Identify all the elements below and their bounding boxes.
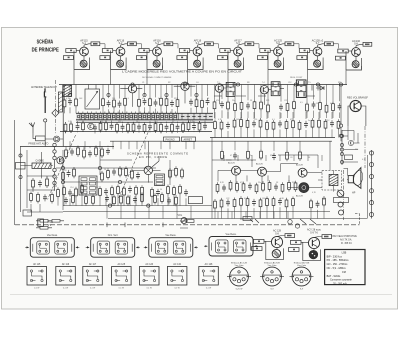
- svg-text:C8: C8: [195, 98, 197, 100]
- svg-text:47: 47: [142, 98, 144, 100]
- resistor R91: [77, 146, 80, 157]
- resistor R20: [132, 122, 135, 133]
- resistor R65: [181, 168, 184, 179]
- socket box AC 125: [112, 267, 132, 286]
- resistor R109: [246, 197, 249, 208]
- resistor R25: [182, 122, 185, 133]
- svg-text:A/U.TK GA.: A/U.TK GA.: [340, 239, 352, 242]
- dashdot speaker line: [343, 170, 345, 220]
- resistor R11: [195, 98, 198, 109]
- socket box AF 115: [27, 267, 47, 286]
- wire stage link: [136, 44, 141, 49]
- svg-text:L'CADRE MODERELE REG VOLTMETRE: L'CADRE MODERELE REG VOLTMETRE A COUPE E…: [122, 71, 243, 74]
- resistor R27: [198, 121, 201, 132]
- resistor R52: [311, 118, 314, 129]
- svg-text:Vue Cote: Vue Cote: [234, 264, 244, 267]
- resistor R74: [135, 185, 138, 196]
- svg-text:CADRE: CADRE: [36, 159, 45, 162]
- svg-text:AC 125: AC 125: [117, 263, 125, 266]
- wire T5: [348, 106, 366, 126]
- svg-text:Occ. Vert: Occ. Vert: [108, 234, 118, 237]
- resistor R6: [138, 97, 141, 108]
- right cluster wires: [342, 126, 360, 162]
- svg-text:AC125: AC125: [228, 162, 235, 165]
- left column parts: [19, 154, 22, 157]
- IF transformer M2: [271, 82, 280, 96]
- resistor R99: [255, 183, 258, 194]
- svg-text:VOL: VOL: [178, 215, 183, 217]
- wire cadre: [21, 152, 53, 178]
- right bus nodes: [369, 150, 373, 219]
- capacitor C14: [148, 123, 152, 130]
- wire stage link: [254, 44, 259, 49]
- wire stage drop: [147, 66, 163, 85]
- svg-text:220: 220: [254, 119, 257, 121]
- battery: [38, 219, 44, 226]
- dashed diagonal 1: [48, 135, 76, 199]
- resistor R88: [161, 192, 164, 203]
- svg-text:5n: 5n: [158, 98, 160, 100]
- transistor stage S-4: [177, 42, 213, 70]
- resistor R22: [154, 122, 157, 133]
- resistor R103: [288, 180, 291, 191]
- resistor R39: [325, 103, 328, 114]
- resistor R32: [253, 100, 256, 111]
- svg-text:AC 132: AC 132: [173, 263, 181, 266]
- capacitor C33: [104, 188, 108, 195]
- resistor R122: [32, 178, 35, 189]
- driver transformer TR2: [329, 174, 338, 185]
- resistor R49: [285, 119, 288, 130]
- resistor R5: [124, 96, 127, 107]
- resistor R92: [83, 148, 86, 159]
- capacitor C7: [189, 99, 193, 106]
- node N8: [236, 83, 239, 86]
- resistor R76: [151, 187, 154, 198]
- resistor R12: [201, 98, 204, 109]
- dashed corner: [355, 214, 360, 225]
- dashed diagonal 2: [118, 128, 150, 199]
- rails: [60, 131, 212, 133]
- driver transistor T5: [350, 100, 361, 111]
- capacitor C9: [76, 123, 80, 130]
- capacitor C46: [274, 184, 278, 191]
- resistor R34: [267, 103, 270, 114]
- resistor R23: [160, 122, 163, 133]
- capacitor C6: [170, 100, 174, 107]
- svg-text:AC128: AC128: [296, 195, 303, 198]
- wire stage drop: [268, 66, 284, 85]
- resistor R93: [95, 146, 98, 157]
- capacitor C45: [248, 183, 252, 190]
- capacitor C49: [278, 198, 282, 205]
- arret box: [182, 137, 196, 142]
- wire risers mid: [70, 141, 194, 218]
- svg-text:0,1: 0,1: [126, 98, 129, 100]
- resistor R89: [175, 195, 178, 206]
- resistor R121: [299, 150, 302, 161]
- node N13: [98, 166, 101, 169]
- svg-text:50: 50: [136, 121, 138, 123]
- resistor R112: [272, 197, 275, 208]
- svg-text:0,5: 0,5: [244, 198, 247, 200]
- resistor R54: [324, 119, 327, 130]
- resistor R10: [176, 98, 179, 109]
- wire rf links: [120, 86, 264, 107]
- resistor R117: [221, 149, 224, 160]
- spec box: [325, 250, 365, 285]
- node N4: [165, 93, 168, 96]
- resistor R60: [119, 166, 122, 177]
- power rail solid: [108, 218, 367, 220]
- resistor R110: [259, 198, 262, 209]
- dash-dot separator: [55, 80, 57, 135]
- capacitor C48: [252, 199, 256, 206]
- transistor stage S-8: [335, 42, 371, 70]
- socket box AC 128: [199, 267, 219, 286]
- resistor R13: [64, 122, 67, 133]
- capacitor C30: [112, 168, 116, 175]
- resistor R33: [260, 100, 263, 111]
- resistor R78: [173, 185, 176, 196]
- whip antenna: [29, 122, 35, 133]
- resistor R37: [306, 102, 309, 113]
- svg-text:R21: R21: [266, 100, 269, 102]
- svg-text:HP: HP: [352, 192, 356, 195]
- resistor R79: [179, 184, 182, 195]
- resistor R21: [143, 122, 146, 133]
- resistor R15: [82, 121, 85, 132]
- pinout box Vue Dess.: [144, 238, 198, 258]
- svg-text:BAT - 9Volts: BAT - 9Volts: [327, 275, 341, 278]
- wire stage drop: [308, 66, 324, 85]
- resistor R41: [214, 120, 217, 131]
- svg-text:R12: R12: [270, 155, 273, 157]
- svg-text:PRISE ANT. AUTO: PRISE ANT. AUTO: [28, 143, 48, 146]
- resistor R2: [75, 97, 78, 108]
- capacitor C22: [312, 101, 316, 108]
- svg-text:C14: C14: [154, 121, 157, 123]
- resistor R64: [175, 166, 178, 177]
- capacitor C52: [272, 153, 276, 160]
- capacitor C2: [107, 100, 111, 107]
- resistor R116: [323, 196, 326, 207]
- IF mid wires: [215, 112, 332, 119]
- resistor R62: [131, 169, 134, 180]
- wire left links: [27, 176, 63, 212]
- IF transformer M1: [226, 82, 235, 96]
- svg-text:Consomm courante: Consomm courante: [330, 279, 352, 282]
- svg-text:PO - 185 - 565oKcs: PO - 185 - 565oKcs: [327, 259, 350, 262]
- oscillator circle X: [144, 166, 152, 174]
- wire stage drop: [111, 66, 127, 85]
- wire jumpers: [214, 85, 341, 97]
- capacitor C43: [106, 148, 110, 155]
- svg-text:LSB: LSB: [342, 251, 347, 254]
- audio wires: [212, 138, 348, 219]
- resistor R106: [220, 198, 223, 209]
- resistor R108: [240, 196, 243, 207]
- node N5: [195, 93, 198, 96]
- node N12: [61, 166, 64, 169]
- resistor R42: [220, 120, 223, 131]
- node N15: [147, 204, 150, 207]
- socket box AF 116: [56, 267, 76, 286]
- svg-text:AF 117: AF 117: [89, 263, 97, 266]
- svg-text:FM: FM: [342, 271, 346, 274]
- svg-text:S-1: S-1: [82, 42, 86, 45]
- resistor R36: [293, 100, 296, 111]
- node N16: [108, 204, 111, 207]
- capacitor C36: [184, 189, 188, 196]
- resistor R120: [286, 150, 289, 161]
- phono box: [164, 137, 180, 142]
- svg-text:ANTENNE TELESCOP: ANTENNE TELESCOP: [31, 86, 57, 89]
- capacitor C50: [316, 201, 320, 208]
- svg-text:R7: R7: [172, 121, 174, 123]
- resistor R26: [187, 121, 190, 132]
- wire stage link: [333, 44, 338, 49]
- capacitor C37: [64, 197, 68, 204]
- capacitor C53: [38, 180, 42, 187]
- svg-text:S-7: S-7: [316, 42, 320, 45]
- resistor R66: [57, 187, 60, 198]
- resistor R53: [318, 118, 321, 129]
- capacitor C18: [203, 123, 207, 130]
- resistor R58: [101, 171, 104, 182]
- node: [339, 134, 342, 137]
- svg-text:DE PRINCIPE: DE PRINCIPE: [32, 47, 60, 53]
- svg-text:S-9 T-6: S-9 T-6: [310, 231, 318, 234]
- resistor R51: [298, 120, 301, 131]
- node: [44, 119, 47, 122]
- resistor R-left: [16, 163, 26, 170]
- resistor R1: [63, 98, 66, 109]
- resistor R45: [246, 118, 249, 129]
- power rail dashed: [15, 224, 360, 226]
- svg-text:0,25 W: 0,25 W: [236, 289, 243, 291]
- svg-text:0,1 W: 0,1 W: [63, 288, 68, 290]
- resistor R46: [259, 118, 262, 129]
- resistor R114: [292, 197, 295, 208]
- svg-text:0,5: 0,5: [300, 102, 303, 104]
- resistor R107: [233, 198, 236, 209]
- svg-text:Vue Dess.: Vue Dess.: [47, 234, 58, 237]
- svg-text:0,1 W: 0,1 W: [119, 288, 124, 290]
- wire antenna feeds: [33, 109, 63, 147]
- capacitor C42: [88, 150, 92, 157]
- wire osc: [132, 141, 160, 182]
- svg-text:Embase AC 128: Embase AC 128: [231, 262, 248, 265]
- pinout box Vue Dess.: [204, 237, 258, 257]
- svg-text:Vue Dess.: Vue Dess.: [165, 234, 176, 237]
- resistor R61: [125, 166, 128, 177]
- resistor R83: [113, 195, 116, 206]
- wire stage drop: [346, 66, 362, 85]
- resistor R16: [99, 121, 102, 132]
- resistor R101: [268, 180, 271, 191]
- svg-text:OC - 5,9 - 18Mcs: OC - 5,9 - 18Mcs: [327, 267, 347, 270]
- band switch strip: [76, 112, 213, 123]
- capacitor C4: [143, 98, 147, 105]
- resistor R100: [262, 181, 265, 192]
- resistor R71: [111, 186, 114, 197]
- svg-text:T.5: T.5: [308, 82, 311, 84]
- resistor R29: [227, 100, 230, 111]
- svg-text:C8: C8: [64, 170, 66, 172]
- resistor R87: [154, 193, 157, 204]
- resistor R105: [214, 199, 217, 210]
- node N7: [183, 83, 186, 86]
- svg-text:Embase ACY28: Embase ACY28: [294, 262, 310, 265]
- svg-text:100: 100: [100, 121, 103, 123]
- capacitor C39: [133, 196, 137, 203]
- aux box: [188, 197, 202, 204]
- thermistor box: [334, 198, 349, 203]
- svg-text:PHONO: PHONO: [166, 138, 175, 141]
- svg-text:S-8: S-8: [275, 232, 279, 235]
- transistor T2: [181, 82, 189, 90]
- resistor R35: [286, 101, 289, 112]
- node N10: [316, 83, 319, 86]
- svg-text:C1: C1: [142, 82, 144, 84]
- transistor T0: [88, 123, 94, 129]
- resistor R59: [107, 168, 110, 179]
- capacitor C8: [206, 98, 210, 105]
- resistor R30: [234, 102, 237, 113]
- resistor R85: [127, 195, 130, 206]
- wire right col: [340, 93, 342, 142]
- svg-text:5n: 5n: [250, 155, 252, 157]
- detector diode D1: [312, 85, 324, 91]
- socket box AC 132: [167, 267, 187, 286]
- resistor R40: [332, 102, 335, 113]
- right cluster nodes: [340, 130, 343, 165]
- fold line: [10, 294, 392, 296]
- resistor R115: [310, 199, 313, 210]
- switch contact column: [53, 143, 56, 190]
- svg-text:5n: 5n: [308, 120, 310, 122]
- svg-text:SCHEMA REPRESENTE COMMUTE: SCHEMA REPRESENTE COMMUTE: [127, 151, 188, 155]
- transistor T1: [128, 85, 136, 93]
- capacitor C10: [93, 124, 97, 131]
- svg-text:REG VOL BRANSF: REG VOL BRANSF: [347, 96, 368, 99]
- capacitor C24: [226, 122, 230, 129]
- svg-text:0,1 W: 0,1 W: [90, 288, 95, 290]
- node jack: [55, 137, 58, 140]
- prise auto box: [36, 136, 46, 141]
- svg-text:R2: R2: [168, 82, 170, 84]
- svg-text:S-3: S-3: [155, 42, 159, 45]
- resistor R96: [229, 180, 232, 191]
- resistor R125: [37, 192, 40, 203]
- resistor R126: [51, 192, 54, 203]
- capacitor C3: [118, 101, 122, 108]
- resistor R104: [294, 181, 297, 192]
- capacitor C38: [105, 195, 109, 202]
- svg-text:R7: R7: [96, 187, 98, 189]
- wire stage drop: [188, 66, 204, 85]
- ferrite rod antenna coil: [32, 163, 51, 168]
- pinout circle Embase ACY28: [260, 267, 284, 286]
- small box lower-left: [23, 210, 32, 216]
- svg-text:0,1 W: 0,1 W: [147, 288, 152, 290]
- power rail parts: [36, 217, 316, 230]
- resistor R70: [99, 186, 102, 197]
- capacitor C41: [70, 148, 74, 155]
- svg-text:0,1 W: 0,1 W: [206, 288, 211, 290]
- svg-text:470: 470: [216, 100, 219, 102]
- transistor T3: [215, 84, 223, 92]
- wire left verticals: [20, 147, 22, 213]
- resistor R56: [62, 170, 65, 181]
- resistor R72: [117, 185, 120, 196]
- svg-text:220: 220: [355, 149, 358, 151]
- resistor R14: [70, 122, 73, 133]
- resistor R7: [149, 97, 152, 108]
- electrolytic C-el3: [339, 210, 344, 215]
- svg-text:S-2: S-2: [119, 42, 123, 45]
- svg-text:Vue Dess.: Vue Dess.: [226, 233, 237, 236]
- svg-text:FI. 455 KC: FI. 455 KC: [341, 243, 352, 245]
- svg-text:100: 100: [136, 177, 139, 179]
- resistor R80: [72, 193, 75, 204]
- resistor R84: [120, 194, 123, 205]
- resistor R67: [63, 186, 66, 197]
- speaker HP: [348, 168, 364, 195]
- transistor stage S-3: [136, 42, 172, 70]
- capacitor C40: [167, 197, 171, 204]
- svg-text:S-8: S-8: [354, 43, 358, 46]
- resistor R31: [240, 100, 243, 111]
- capacitor C25: [252, 120, 256, 127]
- svg-text:REGL POINT: REGL POINT: [290, 77, 303, 79]
- resistor R86: [141, 192, 144, 203]
- resistor R98: [242, 182, 245, 193]
- resistor R90: [65, 148, 68, 159]
- AF transistor Q6: [258, 167, 267, 176]
- capacitor C35: [156, 189, 160, 196]
- svg-text:Embase ACY28: Embase ACY28: [264, 262, 280, 265]
- svg-text:GO - 150 - 270Kcs: GO - 150 - 270Kcs: [327, 263, 349, 266]
- node N17: [61, 180, 64, 183]
- svg-text:T.4: T.4: [262, 82, 265, 84]
- wire stage drop: [228, 66, 244, 85]
- svg-text:R12: R12: [326, 120, 329, 122]
- capacitor C54: [43, 194, 47, 201]
- wire stage link: [213, 44, 218, 49]
- resistor R18: [116, 122, 119, 133]
- resistor R113: [285, 198, 288, 209]
- svg-text:BIP - 230 Kcs: BIP - 230 Kcs: [327, 255, 343, 258]
- resistor R77: [167, 185, 170, 196]
- svg-text:ARRET: ARRET: [184, 138, 193, 141]
- svg-text:C22: C22: [226, 198, 229, 200]
- pinout box Vue Dess.: [25, 238, 79, 258]
- resistor R43: [233, 118, 236, 129]
- resistor R73: [123, 186, 126, 197]
- switch block B: [155, 174, 165, 186]
- svg-text:0,1: 0,1: [272, 119, 275, 121]
- node N9: [294, 83, 297, 86]
- node diamond: [52, 109, 59, 116]
- volume pot: [181, 218, 187, 224]
- resistor R75: [141, 185, 144, 196]
- capacitor C23: [338, 103, 342, 110]
- RF choke L0: [58, 92, 62, 112]
- svg-text:AC 126: AC 126: [145, 263, 153, 266]
- top bus: [59, 84, 347, 86]
